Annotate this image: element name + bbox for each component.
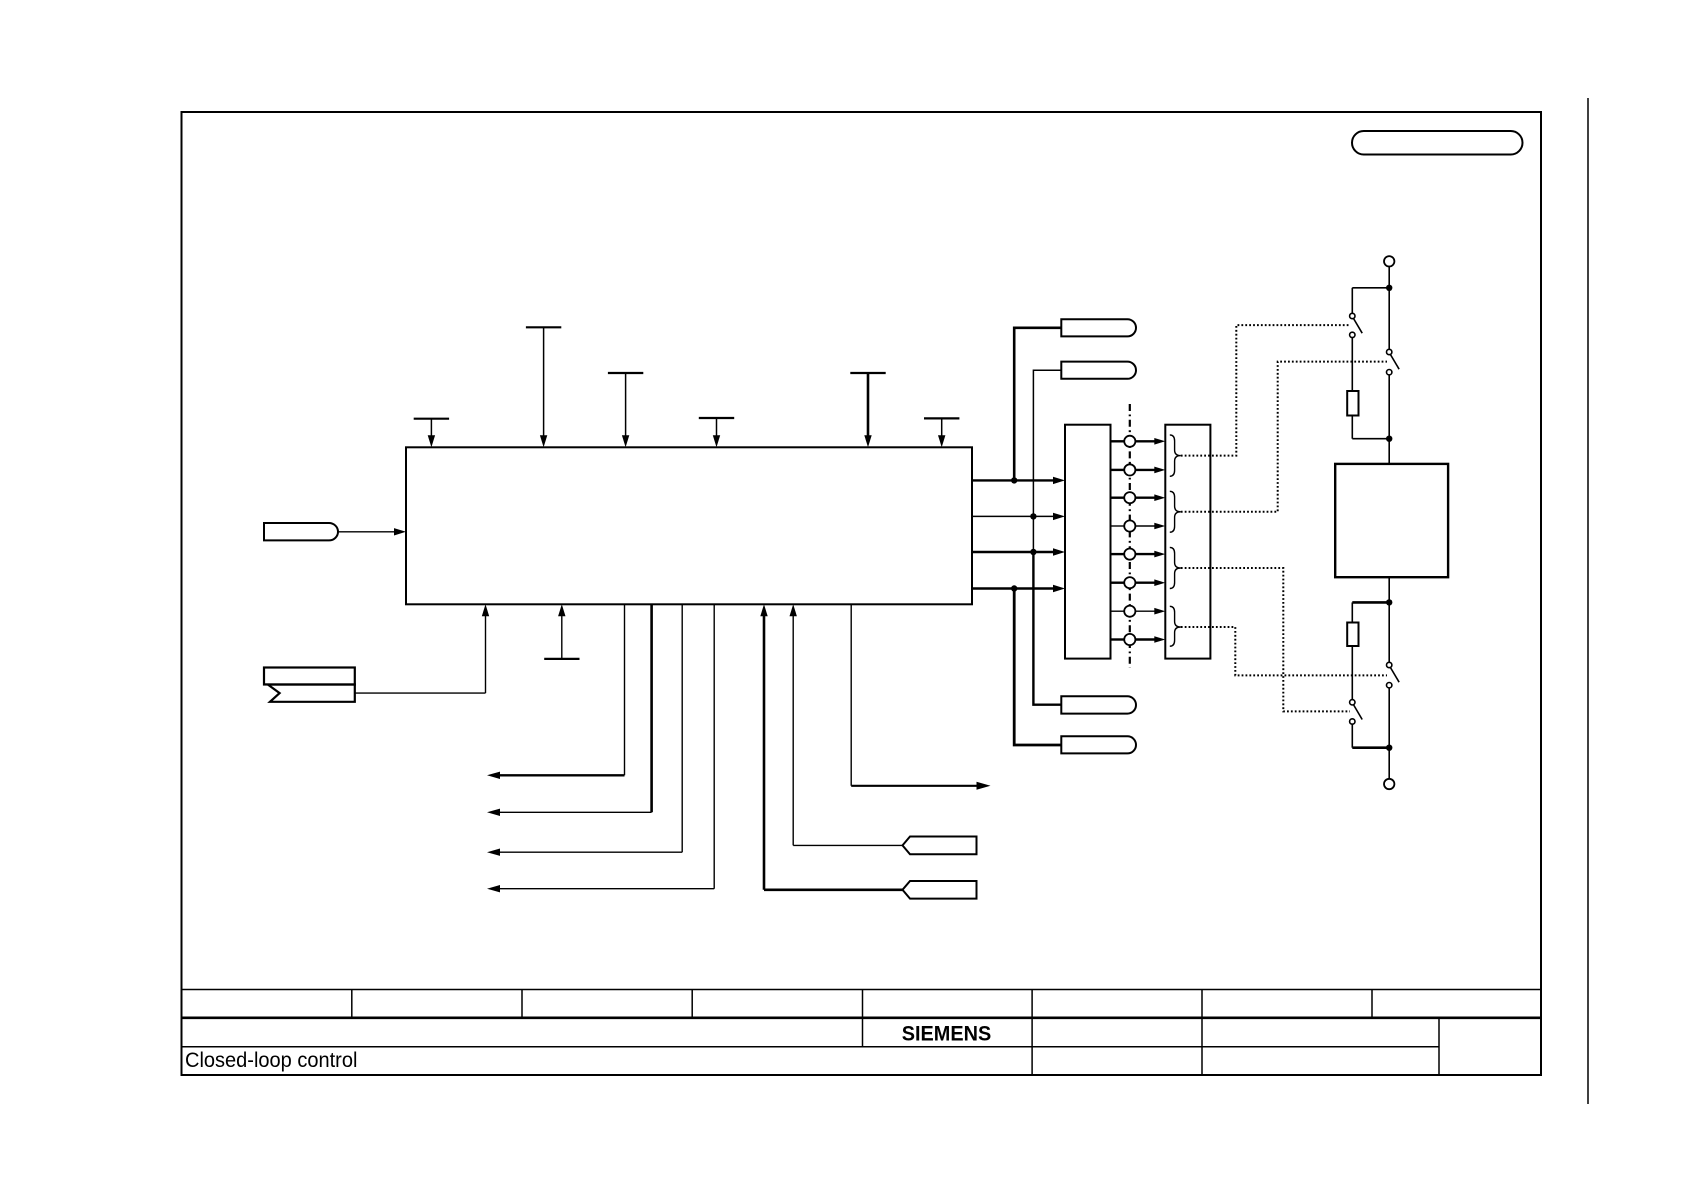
main control block U1 xyxy=(406,447,972,604)
right margin trim line xyxy=(1587,98,1589,1104)
input connector capsule K1 xyxy=(264,523,338,540)
terminal strip dash-dot line xyxy=(1129,404,1131,668)
terminal circle row 4 with wire and arrow xyxy=(1111,520,1166,531)
terminal circle row 7 with wire and arrow xyxy=(1111,606,1166,617)
wire S1 to resistor R1 xyxy=(1351,338,1353,391)
wire node A to branch xyxy=(1352,287,1389,289)
terminal X1 top xyxy=(1384,256,1394,266)
junction node D xyxy=(1386,745,1392,751)
wire X1 down xyxy=(1388,267,1390,288)
switch S2 xyxy=(1387,349,1400,375)
title block lower line xyxy=(182,1046,1440,1048)
drawing frame border xyxy=(182,112,1542,1075)
bold wire K2 to bus R1 xyxy=(1014,328,1061,481)
wire branch down to S1 xyxy=(1351,288,1353,314)
terminal circle row 8 with wire and arrow xyxy=(1111,634,1166,645)
output wire O4 with left arrow xyxy=(487,604,714,892)
junction on bus R4 xyxy=(1011,585,1017,591)
connector capsule K4 bottom xyxy=(1061,696,1136,713)
bus wire R2 block to selector with arrow xyxy=(972,513,1065,520)
junction on bus R2 xyxy=(1030,513,1036,519)
title block bold separator line xyxy=(182,1016,1542,1019)
group brace B1 xyxy=(1170,435,1181,476)
wire R1 down xyxy=(1351,416,1353,439)
wire flag to block bottom with up arrow xyxy=(355,604,489,693)
svg-text:Closed-loop control: Closed-loop control xyxy=(185,1049,357,1072)
switch S1 xyxy=(1350,313,1363,337)
connector capsule K2 top xyxy=(1061,319,1136,336)
switch S3 xyxy=(1350,700,1363,725)
field supply box U4 xyxy=(1335,464,1448,577)
wire link R2 to R3 xyxy=(1032,516,1034,552)
group brace B4 xyxy=(1170,606,1181,646)
wire pentagon P2 to block with bold up arrow xyxy=(760,604,902,890)
switch S4 xyxy=(1387,662,1400,688)
junction on bus R1 xyxy=(1011,477,1017,483)
wire R2 to S3 xyxy=(1351,646,1353,700)
terminal circle row 5 with wire and arrow xyxy=(1111,549,1166,560)
parameter input arrow T5 into block top xyxy=(850,373,885,447)
selector block U2 xyxy=(1065,425,1111,659)
output wire O3 with left arrow xyxy=(487,604,682,856)
flag symbol upper box xyxy=(264,668,355,685)
connector capsule K3 xyxy=(1061,362,1136,379)
bus wire R3 block to selector with arrow xyxy=(972,548,1065,555)
dotted link brace B3 to switch S3 xyxy=(1181,568,1350,711)
junction node B xyxy=(1386,436,1392,442)
terminal X2 bottom xyxy=(1384,779,1394,789)
output group block U3 xyxy=(1165,425,1210,659)
terminal circle row 2 with wire and arrow xyxy=(1111,464,1166,475)
parameter input arrow T3 into block top xyxy=(608,373,643,447)
bold wire node C to branch xyxy=(1352,601,1389,604)
bus wire R1 block to selector with arrow xyxy=(972,477,1065,484)
group brace B3 xyxy=(1170,547,1181,588)
connector capsule K5 bottom xyxy=(1061,736,1136,753)
pentagon connector P2 xyxy=(903,881,977,899)
pentagon connector P1 xyxy=(903,837,977,855)
terminal circle row 6 with wire and arrow xyxy=(1111,577,1166,588)
wire main node C to S4 xyxy=(1388,602,1390,662)
title block cell divider f xyxy=(1201,990,1203,1076)
resistor R1 xyxy=(1347,391,1358,416)
terminal circle row 1 with wire and arrow xyxy=(1111,436,1166,447)
title block top line xyxy=(182,989,1542,991)
input arrow T7 into block bottom xyxy=(544,604,579,659)
title block cell divider a xyxy=(351,990,353,1018)
flag symbol notched banner xyxy=(268,685,355,702)
output wire O5 with right arrow xyxy=(851,604,990,790)
parameter input arrow T6 into block top xyxy=(924,418,959,447)
dotted link brace B1 to switch S1 xyxy=(1181,325,1350,456)
output wire O1 with left arrow xyxy=(487,604,625,779)
wire S2 to field box xyxy=(1388,375,1390,464)
title block cell divider g xyxy=(1371,990,1373,1018)
bus wire R4 block to selector with arrow xyxy=(972,585,1065,592)
wire R3 to capsule K4 xyxy=(1033,552,1061,705)
junction on bus R3 xyxy=(1030,549,1036,555)
junction node A xyxy=(1386,285,1392,291)
wire box to node C xyxy=(1388,577,1390,602)
wire S4 to terminal X2 xyxy=(1388,688,1390,779)
bold wire branch to node D xyxy=(1352,746,1389,749)
wire branch to node B xyxy=(1352,438,1389,440)
title block cell divider c xyxy=(691,990,693,1018)
title block cell divider h xyxy=(1438,1018,1440,1075)
title block cell divider b xyxy=(521,990,523,1018)
svg-text:SIEMENS: SIEMENS xyxy=(902,1023,991,1046)
title block cell divider d xyxy=(862,990,864,1047)
output wire O2 with left arrow xyxy=(487,604,652,816)
parameter input arrow T4 into block top xyxy=(699,418,734,447)
wire K1 to block with arrow xyxy=(338,528,406,535)
bold wire R4 to capsule K5 xyxy=(1014,589,1061,746)
dotted link brace B4 to switch S4 xyxy=(1181,627,1387,675)
title block cell divider e xyxy=(1031,990,1033,1076)
group brace B2 xyxy=(1170,491,1181,532)
terminal circle row 3 with wire and arrow xyxy=(1111,492,1166,503)
wire K3 to bus R2 xyxy=(1033,370,1061,516)
wire branch down to resistor R2 xyxy=(1351,602,1353,622)
parameter input arrow T2 into block top xyxy=(526,327,561,447)
junction node C xyxy=(1386,599,1392,605)
wire pentagon P1 to block with up arrow xyxy=(790,604,903,845)
legend stadium top right xyxy=(1352,131,1523,155)
dotted link brace B2 to switch S2 xyxy=(1181,362,1387,512)
resistor R2 xyxy=(1347,623,1358,647)
parameter input arrow T1 into block top xyxy=(414,419,449,448)
wire S3 to node D xyxy=(1351,724,1353,748)
wire main X1 to S2 xyxy=(1388,288,1390,350)
